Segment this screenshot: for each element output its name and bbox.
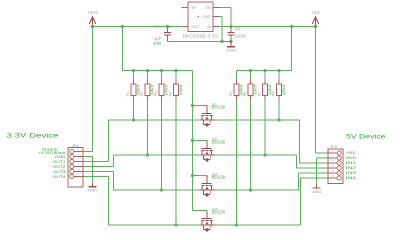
wire gate branch Q1 [193, 105, 208, 107]
junction +3V3 C4 top [166, 25, 169, 28]
svg-text:EN: EN [206, 5, 212, 10]
wire IN4 to JP2 [301, 177, 329, 179]
svg-text:GND: GND [226, 47, 236, 52]
wire JP2 GND [317, 158, 329, 185]
resistor R3 10k0 [159, 71, 164, 101]
label OUT1 [53, 159, 66, 164]
wire OUT1 riser [108, 120, 110, 162]
wire R8 to channel [278, 101, 280, 121]
transistor Q4 BSS138 [200, 211, 215, 233]
svg-text:X7R: X7R [153, 41, 161, 46]
wire channel3 left [114, 189, 201, 191]
resistor R4 10k0 [174, 71, 179, 101]
wire R2 to channel [147, 101, 149, 156]
label Q4 [212, 206, 218, 211]
svg-text:10k0: 10k0 [282, 85, 286, 96]
value Q4 BSS138 [212, 210, 226, 215]
svg-text:R2: R2 [140, 92, 144, 97]
svg-text:R7: R7 [258, 92, 262, 97]
wire OUT3 from JP1 [83, 171, 114, 173]
wire OUT2 riser [113, 155, 115, 167]
pin label IN [207, 24, 211, 29]
junction +3V3 rail drop [121, 25, 124, 28]
pin label EN [206, 5, 212, 10]
connector JP1 [68, 148, 83, 188]
svg-text:R6: R6 [243, 92, 247, 97]
svg-text:5V Device: 5V Device [346, 133, 386, 140]
ground below JP2 [312, 185, 322, 195]
wire channel4 left [109, 224, 201, 226]
svg-text:JP2: JP2 [330, 144, 338, 149]
wire IN2 to JP2 [297, 167, 329, 169]
wire R6 to channel [250, 101, 252, 191]
wire EN horizontal [220, 7, 232, 9]
svg-text:JP1: JP1 [72, 143, 80, 148]
wire +3V3 drop to left pull-up rail [122, 27, 124, 71]
wire channel4 right [215, 224, 301, 226]
label Supply [42, 147, 58, 152]
wire OUT4 from JP1 [83, 176, 109, 178]
value Q2 BSS138 [212, 140, 226, 145]
junction gate Q1 [191, 104, 194, 107]
value R8 10k0 [282, 85, 286, 96]
svg-text:BSS138: BSS138 [212, 175, 226, 180]
transistor Q3 BSS138 [200, 176, 215, 198]
svg-text:C2: C2 [235, 26, 241, 31]
junction R6-channel3 [249, 188, 252, 191]
junction rail R4 [174, 69, 177, 72]
wire EN drop [230, 8, 232, 27]
label Q1 [212, 101, 217, 106]
label IN4 JP2 [346, 175, 358, 180]
wire R7 to channel [264, 101, 266, 156]
value Q1 BSS138 [212, 105, 226, 110]
svg-text:R1: R1 [126, 92, 130, 97]
wire gate branch Q4 [193, 210, 208, 212]
transistor Q1 BSS138 [200, 106, 215, 128]
wire +3V3 top horizontal [93, 26, 182, 28]
junction +5V EN/C2 [229, 25, 232, 28]
label OUT4 [53, 174, 67, 179]
junction GND-C4 [220, 40, 223, 43]
value C4 X7R [153, 41, 161, 46]
label Q3 [212, 171, 217, 176]
wire GND horizontal under IC [168, 41, 232, 43]
wire gate branch Q2 [193, 140, 208, 142]
label JP2 [330, 144, 338, 149]
svg-text:GND: GND [202, 14, 211, 19]
label +3.3V/150mA [38, 150, 66, 155]
value C2 100nF [235, 33, 247, 38]
wire channel4 riser [300, 178, 302, 225]
label JP1 [72, 143, 80, 148]
label IN3 JP2 [346, 170, 357, 175]
junction rail R3 [160, 69, 163, 72]
wire R1 to channel [133, 101, 135, 121]
junction gate Q3 [191, 174, 194, 177]
value MIC5239-3.3 [183, 33, 220, 38]
label GND JP2 [346, 155, 357, 160]
label C2 [235, 26, 241, 31]
label OUT2 [53, 164, 66, 169]
junction rail R8 [277, 69, 280, 72]
label GND JP1 [55, 154, 66, 159]
junction +5V right rail drop [290, 25, 293, 28]
resistor R6 10k0 [248, 71, 253, 101]
wire channel1 riser [299, 120, 301, 163]
label R3 [154, 92, 158, 97]
label R4 [169, 92, 173, 97]
svg-text:+3V3: +3V3 [87, 10, 98, 15]
label +3V3 [87, 10, 98, 15]
capacitor C4 [164, 27, 171, 42]
wire left pull-up rail [123, 70, 193, 72]
svg-text:3.3V Device: 3.3V Device [7, 133, 60, 140]
wire gate branch Q3 [193, 175, 208, 177]
junction R2-channel2 [146, 153, 149, 156]
junction rail R7 [263, 69, 266, 72]
IC1 MIC5239-3.3 voltage regulator [182, 2, 220, 32]
wire channel3 riser [298, 173, 300, 190]
junction gate Q2 [191, 139, 194, 142]
value R5 10k0 [239, 85, 243, 96]
wire +5V drop to right rail [291, 27, 293, 71]
wire right pull-up rail [237, 70, 292, 72]
wire IC GND pin horizontal [220, 16, 223, 18]
wire channel2 left [114, 154, 201, 156]
resistor R1 10k0 [131, 71, 136, 101]
junction rail R2 [146, 69, 149, 72]
wire +3V3 drop to JP1 pin1 [92, 27, 94, 152]
svg-text:R3: R3 [154, 92, 158, 97]
svg-text:BSS138: BSS138 [212, 140, 226, 145]
label 3.3V Device [7, 133, 60, 140]
label R6 [243, 92, 247, 97]
junction GND-C2 [229, 40, 232, 43]
value Q3 BSS138 [212, 175, 226, 180]
svg-text:10k0: 10k0 [179, 85, 183, 96]
label OUT3 [53, 169, 66, 174]
JP2 pin numbers [332, 149, 334, 178]
label Q2 [212, 136, 217, 141]
svg-text:OUT4: OUT4 [53, 174, 67, 179]
svg-text:GND: GND [88, 188, 98, 193]
wire OUT4 riser [108, 177, 110, 226]
capacitor C2 [228, 27, 235, 42]
pin label BP [192, 5, 198, 10]
junction R1-channel1 [132, 118, 135, 121]
wire IN3 to JP2 [299, 172, 329, 174]
value R3 10k0 [164, 85, 168, 96]
wire +5V drop to JP2 pin1 [315, 27, 317, 154]
wire +5V top horizontal [220, 26, 316, 28]
wire IN1 to JP2 [300, 162, 329, 164]
svg-text:R4: R4 [169, 92, 173, 97]
junction rail R6 [249, 69, 252, 72]
junction +5V at supply [314, 25, 317, 28]
label IN1 JP2 [346, 160, 357, 165]
supply +5V arrow [312, 17, 318, 27]
pin dot GND [198, 16, 200, 18]
label R2 [140, 92, 144, 97]
label R8 [272, 92, 276, 97]
label C4 [155, 24, 161, 29]
svg-text:R8: R8 [272, 92, 276, 97]
svg-text:+5V: +5V [311, 10, 320, 15]
wire OUT3 riser [113, 172, 115, 191]
resistor R5 10k0 [234, 71, 239, 101]
wire channel2 riser [296, 155, 298, 168]
wire R5 to channel [236, 101, 238, 226]
resistor R2 10k0 [145, 71, 150, 101]
junction R4-channel4 [174, 223, 177, 226]
label R1 [126, 92, 130, 97]
wire R3 to channel [161, 101, 163, 191]
svg-text:IN: IN [207, 24, 211, 29]
resistor R8 10k0 [277, 71, 282, 101]
junction R3-channel3 [160, 188, 163, 191]
wire channel2 right [215, 154, 297, 156]
wire R4 to channel [175, 101, 177, 226]
label IN2 JP2 [346, 165, 357, 170]
svg-text:OUT: OUT [192, 24, 201, 29]
junction rail R1 [132, 69, 135, 72]
supply +3V3 arrow [89, 17, 95, 27]
wire OUT1 from JP1 [83, 161, 109, 163]
wire channel1 left [109, 119, 201, 121]
svg-text:R5: R5 [229, 92, 233, 97]
svg-text:GND: GND [312, 189, 322, 194]
svg-text:IN4: IN4 [346, 175, 358, 180]
label R5 [229, 92, 233, 97]
wire JP1 pin1 to +3V3 [83, 151, 93, 153]
pin label OUT [192, 24, 201, 29]
transistor Q2 BSS138 [200, 141, 215, 163]
junction R5-channel4 [235, 223, 238, 226]
svg-text:C4: C4 [155, 24, 161, 29]
JP1 pin numbers [78, 148, 80, 177]
value R6 10k0 [253, 85, 257, 96]
pin label GND [202, 14, 211, 19]
svg-text:BSS138: BSS138 [212, 105, 226, 110]
wire IC GND drop [221, 17, 223, 42]
junction +3V3 at supply [91, 25, 94, 28]
svg-text:BP: BP [192, 5, 198, 10]
value C4 1uF [154, 36, 162, 41]
junction R8-channel1 [277, 118, 280, 121]
value R2 10k0 [150, 85, 154, 96]
svg-text:100nF: 100nF [235, 33, 247, 38]
junction R7-channel2 [263, 153, 266, 156]
svg-text:MIC5239-3.3V: MIC5239-3.3V [183, 33, 220, 38]
wire channel1 right [215, 119, 300, 121]
wire OUT2 from JP1 [83, 166, 114, 168]
value R1 10k0 [136, 85, 140, 96]
svg-text:BSS138: BSS138 [212, 210, 226, 215]
ground below JP1 [88, 184, 98, 193]
wire JP2 pin1 to +5V [316, 152, 329, 154]
label 5V Device [346, 133, 386, 140]
wire JP1 GND [83, 157, 93, 185]
resistor R7 10k0 [263, 71, 268, 101]
label +5V [311, 10, 320, 15]
value R4 10k0 [179, 85, 183, 96]
connector JP2 [328, 149, 343, 184]
label +5V JP2 [346, 150, 357, 155]
label R7 [258, 92, 262, 97]
wire channel3 right [215, 189, 299, 191]
wire gate feed vertical [192, 71, 194, 211]
value R7 10k0 [268, 85, 272, 96]
ground below C2 [226, 42, 236, 53]
